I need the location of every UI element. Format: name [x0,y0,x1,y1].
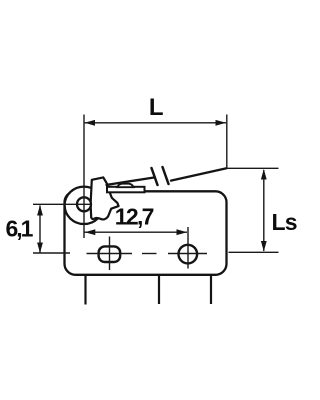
svg-text:6,1: 6,1 [6,216,34,242]
svg-text:12,7: 12,7 [115,204,154,230]
svg-text:Ls: Ls [272,209,297,235]
svg-text:L: L [149,94,164,121]
